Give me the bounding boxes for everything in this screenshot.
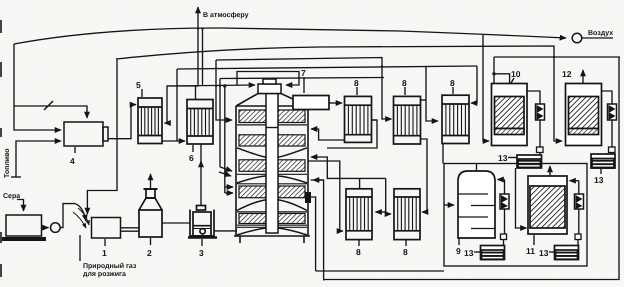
wire stack second line: [202, 29, 204, 86]
wire tower outlet to 8d: [308, 161, 343, 231]
svg-text:Топливо: Топливо: [4, 148, 11, 178]
heat exchanger 8d: [346, 189, 372, 240]
svg-text:13: 13: [594, 175, 604, 185]
wire exchanger6 bottom to pot 3: [200, 161, 202, 206]
svg-text:для розжига: для розжига: [83, 271, 126, 278]
svg-text:11: 11: [526, 246, 535, 256]
heat exchanger 8a: [345, 96, 372, 142]
bottom long wire 2: [324, 57, 619, 280]
wire 8a right elbow: [327, 120, 377, 148]
tower outlet duct: [293, 96, 329, 110]
wire stack line to exchanger5 right: [165, 86, 199, 123]
wire bus y72: [220, 78, 384, 79]
wire upper line with valve slash to furnace top: [14, 106, 87, 118]
wire air main line: [14, 28, 566, 44]
wire air to tower10 bottom: [483, 35, 489, 141]
svg-text:8: 8: [450, 78, 455, 88]
svg-text:Природный газ: Природный газ: [83, 262, 137, 270]
svg-text:5: 5: [136, 80, 141, 90]
collector tank 13c: [591, 154, 615, 168]
converter tower 7 body: [234, 94, 310, 237]
wire bus y66: [177, 66, 477, 69]
collector tank 13b: [517, 155, 542, 168]
scan marks left edge: [0, 20, 2, 277]
collector tank 13e: [555, 246, 579, 260]
tower 7 tray floor lines: [237, 125, 307, 227]
node air circle: [572, 33, 582, 43]
tower 7 trays hatched: [239, 110, 305, 224]
wire separator vent: [150, 174, 152, 189]
wire 11 vent up: [549, 166, 551, 176]
tower 7 drive box: [258, 84, 281, 94]
wire into tower left mid with zigzag: [219, 79, 221, 168]
svg-text:13: 13: [464, 248, 474, 258]
separator vessel 2: [139, 189, 162, 237]
wire air down to furnace: [14, 44, 61, 130]
valve slash: [44, 101, 53, 110]
tower 7 tray arcs: [237, 148, 307, 235]
wire exchanger5 bottom to exchanger6: [162, 140, 185, 142]
pump 10: [536, 104, 545, 120]
pump 12: [608, 104, 617, 120]
heat exchanger 8b: [394, 96, 421, 144]
wire 8b to 8c upper: [421, 99, 427, 101]
wire bus to scrubber 10 top: [493, 57, 495, 83]
roof: [236, 94, 308, 107]
burner 1: [92, 218, 121, 239]
wire pump 11 into tower right: [570, 180, 579, 182]
bottom long wire 1: [316, 270, 444, 272]
svg-text:Воздух: Воздух: [588, 30, 613, 37]
wire separator to pot 3: [162, 222, 190, 224]
svg-text:7: 7: [301, 68, 306, 78]
wire 8d top into tower: [311, 157, 386, 178]
wire tower12 top right to pump: [602, 91, 613, 104]
wire tower10 top right to pump: [527, 91, 540, 104]
wire group inlet into 9: [444, 204, 454, 206]
heat exchanger 8c: [442, 95, 469, 143]
wire bus y57 right: [494, 56, 620, 58]
wire 8b bottom to 8e: [421, 139, 428, 212]
wire pump10 down to tank: [539, 120, 541, 147]
wire exchanger6 riser: [195, 86, 197, 100]
wire pump12 down to tank: [611, 120, 613, 147]
svg-text:4: 4: [70, 156, 75, 166]
stack to atmosphere: [197, 7, 199, 86]
wire burner to separator double pipe: [121, 227, 140, 229]
collector tank 13d: [481, 246, 505, 260]
svg-text:В атмосферу: В атмосферу: [203, 11, 249, 19]
wire fuel line: [16, 141, 61, 177]
wire tank 13b down to tower 11: [516, 168, 527, 228]
wire into tower left lower: [224, 86, 226, 193]
crossing hop dots: [197, 28, 555, 88]
svg-text:3: 3: [199, 248, 204, 258]
node junction: [492, 72, 495, 75]
scrubber tower 10: [492, 84, 528, 146]
burner inlet fan arrows: [78, 208, 89, 225]
vessel 9: [458, 171, 495, 238]
wire bus2 to scrubber 12 bottom: [116, 46, 562, 141]
heat exchanger 5: [138, 98, 162, 144]
pump 11: [578, 181, 580, 234]
tower 11: [528, 176, 567, 234]
wire bus Q to 8b left: [216, 58, 392, 120]
wire y66 branch to 8c left: [426, 66, 438, 121]
wire 8a right down: [372, 119, 378, 121]
svg-text:13: 13: [498, 153, 508, 163]
furnace 4: [64, 122, 103, 146]
group box around 9 and 11: [444, 164, 587, 267]
svg-text:1: 1: [102, 248, 107, 258]
wire 9 riser to group top: [476, 164, 478, 172]
sulfur melter: [6, 215, 42, 236]
svg-text:6: 6: [189, 153, 194, 163]
wire bus y66 into 8c right: [471, 66, 477, 103]
wire side box to bottom line: [311, 197, 316, 271]
svg-text:9: 9: [456, 246, 461, 256]
svg-text:8: 8: [403, 247, 408, 257]
natural gas line: [79, 235, 81, 261]
seal pot 3: [188, 206, 217, 238]
wire duct to exchanger 8a: [329, 102, 342, 104]
wire pump to burner: [60, 204, 86, 228]
wire drive overhead loop: [237, 72, 299, 86]
node junction on drive line: [223, 84, 226, 87]
wire 8a bottom back into tower: [311, 129, 345, 140]
wire pump 9 into dome: [498, 179, 505, 181]
wire tower12 vent up: [582, 70, 584, 84]
wire bus3 riser to connector: [176, 69, 178, 141]
wire drive feed line: [167, 85, 255, 86]
svg-text:10: 10: [511, 69, 521, 79]
wire into tower left upper: [216, 60, 232, 120]
wire split into 8d and 8e: [385, 178, 387, 212]
svg-text:12: 12: [562, 69, 572, 79]
svg-text:2: 2: [147, 248, 152, 258]
heat exchanger 8e: [394, 189, 420, 240]
svg-text:8: 8: [356, 247, 361, 257]
wire bottom recycle into tower: [311, 180, 324, 281]
tower side box: [305, 192, 311, 203]
pump P1 circle: [42, 227, 49, 229]
svg-text:13: 13: [539, 248, 549, 258]
wire 8c left down to group: [442, 144, 444, 164]
pump 9: [504, 180, 506, 235]
svg-text:8: 8: [402, 78, 407, 88]
svg-text:8: 8: [354, 78, 359, 88]
wire startup bypass down to burner: [87, 59, 117, 214]
wire pot 3 to tower bottom line: [214, 230, 237, 232]
heat exchanger 6: [187, 100, 213, 145]
wire furnace outlet to exchanger 5: [108, 105, 136, 139]
scrubber tower 12: [566, 84, 602, 146]
tower 7 central shaft: [266, 94, 278, 234]
